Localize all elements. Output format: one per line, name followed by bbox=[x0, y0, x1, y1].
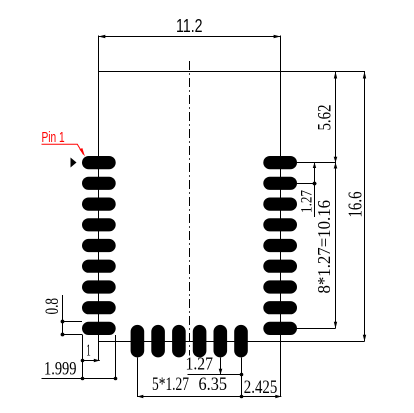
arrow 0.8 top bbox=[61, 320, 65, 324]
svg-text:Pin 1: Pin 1 bbox=[42, 130, 65, 146]
arrow top 16.6 bbox=[363, 72, 366, 79]
svg-text:5*1.27: 5*1.27 bbox=[152, 374, 189, 395]
svg-text:8*1.27=10.16: 8*1.27=10.16 bbox=[314, 200, 334, 294]
wire: pad R1 center extension bbox=[297, 162, 336, 164]
arrow bottom 16.6 bbox=[363, 335, 366, 342]
arrow 1.27 top bbox=[313, 163, 316, 169]
wire: right pad column center extension (11.2 dim to bottom dim) bbox=[280, 36, 282, 398]
svg-text:11.2: 11.2 bbox=[176, 16, 203, 36]
arrow top 5.62 bbox=[334, 72, 337, 79]
pad R4 bbox=[263, 218, 297, 231]
svg-text:16.6: 16.6 bbox=[346, 191, 367, 217]
dimension 1.27 bottom line bbox=[188, 374, 242, 376]
pad B5 bbox=[214, 325, 228, 358]
dimension line 1.27 right (x=314.5) bbox=[314, 163, 316, 218]
pad R6 bbox=[263, 260, 297, 273]
pad R3 bbox=[263, 198, 297, 211]
arrow 0.8 bottom bbox=[61, 333, 65, 337]
arrow at B5 bbox=[219, 369, 223, 375]
pad R1 bbox=[263, 156, 297, 169]
wire: pad L9 right edge extension x=115.7 bbox=[115, 335, 117, 379]
dimension 11.2 line bbox=[99, 36, 281, 38]
pad R7 bbox=[263, 280, 297, 293]
dimension 1.999 line bbox=[42, 378, 116, 380]
svg-text:2.425: 2.425 bbox=[244, 377, 277, 398]
pad L7 bbox=[82, 280, 116, 293]
wire: pad R9 center extension bbox=[297, 328, 336, 330]
pad R5 bbox=[263, 239, 297, 252]
pad L3 bbox=[82, 198, 116, 211]
pad R8 bbox=[263, 301, 297, 314]
pad B3 bbox=[172, 325, 186, 358]
pad R2 bbox=[263, 177, 297, 190]
pad B1 bbox=[131, 325, 145, 358]
Pin 1 leader arrowhead (red) bbox=[80, 148, 86, 157]
dimension bottom main line bbox=[138, 396, 282, 398]
wire: pad R2 center extension bbox=[297, 183, 317, 185]
wire: bottom pad B6 extension bbox=[241, 358, 243, 398]
arrow bottom 10.16 bbox=[334, 322, 337, 329]
dimension 0.8 ticks bbox=[63, 321, 83, 323]
pad L8 bbox=[82, 301, 116, 314]
dimension 1 line bbox=[83, 360, 100, 362]
pad L1 bbox=[82, 156, 116, 169]
pin 1 marker triangle bbox=[71, 158, 77, 168]
wire: bottom pad B1 extension bbox=[137, 358, 139, 398]
dimension line 16.6 (x=364.8) bbox=[364, 72, 366, 342]
pad B4 bbox=[193, 325, 207, 358]
pad L4 bbox=[82, 218, 116, 231]
arrow right of 11.2 bbox=[274, 35, 281, 38]
pad B2 bbox=[151, 325, 165, 358]
svg-text:5.62: 5.62 bbox=[315, 105, 336, 131]
arrow pad1 center junction bbox=[334, 157, 338, 163]
pad B6 bbox=[234, 325, 248, 358]
pad L5 bbox=[82, 239, 116, 252]
wire: top extension line y=71.5 bbox=[99, 71, 366, 73]
arrow left of 11.2 bbox=[98, 35, 105, 38]
pad R9 bbox=[263, 322, 297, 335]
wire: left pad column center extension (11.2 dim to 1 dim) bbox=[98, 36, 100, 362]
pad L2 bbox=[82, 177, 116, 190]
pad L9 bbox=[82, 322, 116, 335]
svg-text:1: 1 bbox=[86, 341, 91, 360]
svg-text:1.999: 1.999 bbox=[44, 359, 77, 380]
svg-text:6.35: 6.35 bbox=[199, 374, 228, 395]
dimension line 5.62 and 8*1.27=10.16 (x=335) bbox=[335, 72, 337, 329]
svg-text:0.8: 0.8 bbox=[42, 298, 63, 315]
centerline vertical dash-dot bbox=[189, 61, 191, 356]
pad L6 bbox=[82, 260, 116, 273]
arrow 1.27 bottom bbox=[313, 182, 317, 186]
wire: bottom pads center extension y=341.3 bbox=[99, 341, 365, 343]
dimension line 0.8 vertical bbox=[62, 295, 64, 335]
wire: bottom pad B5 extension bbox=[220, 358, 222, 375]
wire: pad L9 left edge extension x=82 bbox=[82, 335, 84, 380]
Pin 1 leader line (red) bbox=[42, 144, 84, 154]
svg-text:1.27: 1.27 bbox=[299, 190, 316, 213]
